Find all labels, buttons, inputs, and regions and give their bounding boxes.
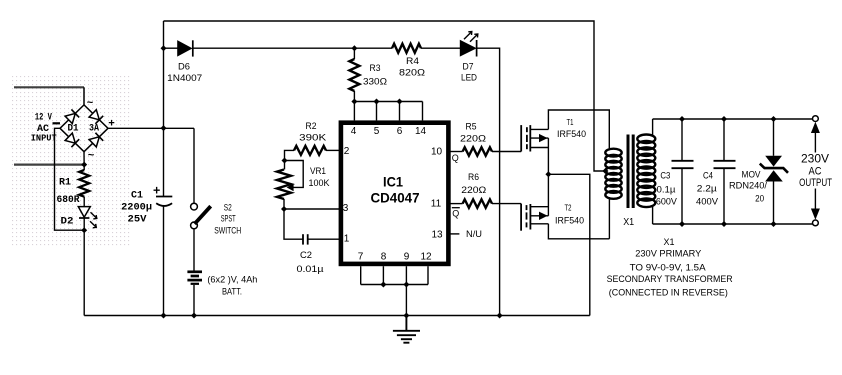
wire pin7 stub — [360, 266, 362, 284]
capacitor C2 — [302, 234, 304, 244]
label minus — [53, 122, 61, 124]
wire source node to ground rail — [548, 174, 589, 315]
junction bus pin4 — [351, 99, 357, 105]
svg-text:6: 6 — [397, 126, 403, 137]
wire to D6 anode — [164, 47, 178, 49]
junction battery at rail — [191, 313, 197, 319]
wire R2 to VR1 top — [285, 150, 295, 169]
svg-text:14: 14 — [415, 126, 427, 137]
svg-text:S2: S2 — [224, 202, 232, 212]
LED D7 — [460, 41, 475, 56]
svg-text:7: 7 — [358, 252, 364, 263]
wire D6 cathode to R4 — [193, 47, 392, 49]
wire R4 to D7 — [421, 47, 460, 49]
wire D7 cathode down to bottom rail — [477, 48, 500, 315]
wire R2 to pin2 — [326, 149, 341, 151]
svg-text:R6: R6 — [468, 172, 479, 183]
svg-text:VR1: VR1 — [310, 166, 326, 177]
svg-text:600V: 600V — [656, 197, 678, 208]
wire pin13 stub — [448, 233, 459, 235]
wire secondary bottom lead — [652, 206, 654, 225]
svg-text:SWITCH: SWITCH — [214, 225, 241, 235]
svg-text:R3: R3 — [370, 63, 381, 74]
junction centre tap — [602, 168, 608, 174]
transformer X1 core — [627, 135, 630, 209]
wire secondary top lead — [652, 119, 654, 136]
svg-text:12 V: 12 V — [35, 113, 52, 124]
resistor R5 220ohm — [463, 147, 492, 155]
svg-text:0.01µ: 0.01µ — [297, 264, 325, 275]
junction VR1 bottom pin3 — [281, 206, 287, 212]
svg-text:Q: Q — [452, 209, 459, 219]
LED D2 — [78, 207, 90, 218]
svg-text:R5: R5 — [466, 122, 477, 133]
svg-text:230V: 230V — [801, 152, 829, 166]
potentiometer VR1 100K — [277, 170, 291, 200]
svg-text:220Ω: 220Ω — [461, 185, 486, 196]
wire pin5 stub — [376, 102, 378, 121]
wire pin12 stub — [427, 266, 429, 284]
wire T2 drain up to junction — [547, 174, 549, 216]
svg-text:2200µ: 2200µ — [121, 202, 152, 213]
svg-text:C1: C1 — [131, 190, 143, 201]
svg-text:1N4007: 1N4007 — [167, 73, 202, 84]
svg-text:R2: R2 — [306, 121, 317, 132]
wire pin4 stub — [353, 102, 355, 121]
junction C3 bottom — [679, 221, 685, 227]
svg-text:20: 20 — [755, 194, 764, 205]
svg-text:OUTPUT: OUTPUT — [799, 177, 832, 189]
label Qbar — [452, 207, 460, 209]
svg-text:Q: Q — [452, 153, 459, 163]
wire R1 to D2 — [83, 197, 85, 207]
wire VR1 bottom — [283, 199, 285, 209]
svg-text:11: 11 — [431, 199, 442, 210]
svg-text:T2: T2 — [565, 204, 572, 213]
svg-text:8: 8 — [381, 252, 387, 263]
switch S2 — [191, 203, 198, 210]
svg-text:INPUT: INPUT — [31, 134, 58, 144]
svg-text:T1: T1 — [567, 118, 574, 127]
svg-text:~: ~ — [88, 151, 95, 163]
wire AC input lower — [14, 164, 84, 166]
svg-text:330Ω: 330Ω — [363, 77, 387, 88]
junction C4 bottom — [721, 221, 727, 227]
wire battery to bottom rail — [193, 285, 195, 316]
svg-text:(CONNECTED IN REVERSE): (CONNECTED IN REVERSE) — [609, 287, 728, 297]
wire T1 drain to primary top — [548, 110, 609, 149]
junction bus pin8 — [380, 282, 386, 288]
wire AC input upper — [14, 86, 84, 88]
junction bus pin9 — [403, 282, 409, 288]
svg-text:3A: 3A — [89, 124, 99, 135]
svg-text:C2: C2 — [300, 250, 312, 261]
svg-text:CD4047: CD4047 — [371, 190, 420, 206]
wire C1 minus to bottom rail — [163, 207, 165, 316]
wire S2 to battery — [193, 229, 195, 271]
wire D2 to bottom rail — [83, 218, 85, 316]
wire R3 top lead — [353, 48, 355, 59]
wire output bottom — [653, 223, 813, 225]
svg-text:680R: 680R — [57, 195, 80, 206]
wire pin10 to R5 — [448, 151, 462, 153]
wire T2 source to primary bottom — [548, 224, 609, 239]
wire bridge bottom to R1 — [83, 152, 85, 170]
wire primary bottom lead — [608, 197, 610, 239]
svg-text:820Ω: 820Ω — [399, 68, 425, 79]
wire pin11 to R6 — [448, 203, 462, 205]
svg-text:~: ~ — [87, 98, 94, 110]
capacitor C4 — [723, 119, 725, 161]
svg-text:220Ω: 220Ω — [460, 134, 486, 145]
wire pin14 stub — [422, 102, 424, 121]
wire output top — [653, 118, 813, 120]
svg-text:R1: R1 — [59, 178, 71, 189]
svg-text:BATT.: BATT. — [222, 287, 242, 297]
wire T1 source down — [547, 138, 549, 174]
bridge diode bottom-left — [65, 133, 75, 143]
capacitor C3 — [681, 119, 683, 161]
svg-text:(6x2 )V, 4Ah: (6x2 )V, 4Ah — [207, 275, 257, 285]
op-amp IC1 CD4047 box — [341, 123, 449, 264]
wire to S2 — [193, 128, 195, 203]
svg-text:D1: D1 — [68, 124, 79, 135]
svg-text:12: 12 — [420, 252, 432, 263]
bridge rectifier D1 3A — [60, 105, 108, 152]
svg-text:TO 9V-0-9V, 1.5A: TO 9V-0-9V, 1.5A — [630, 263, 706, 273]
node 230V AC output bottom terminal — [814, 189, 816, 209]
resistor R6 220ohm — [463, 199, 492, 207]
wire top rail to transformer centre tap — [164, 21, 606, 171]
bridge diode bottom-right — [89, 137, 99, 147]
background dotted grid (left area) — [10, 76, 130, 248]
svg-text:10: 10 — [431, 147, 443, 158]
svg-text:C3: C3 — [660, 170, 670, 181]
junction C3 top — [679, 116, 685, 122]
wire pin9 stub — [405, 266, 407, 284]
svg-text:390K: 390K — [299, 132, 327, 143]
junction D6 anode tap — [161, 45, 167, 51]
resistor R1 680R — [79, 170, 89, 197]
svg-text:D7: D7 — [463, 62, 474, 73]
svg-text:AC: AC — [809, 166, 822, 178]
diode D6 1N4007 — [178, 41, 192, 56]
svg-text:N/U: N/U — [466, 229, 482, 240]
svg-text:13: 13 — [431, 230, 443, 241]
svg-text:X1: X1 — [623, 217, 634, 228]
junction MOV bottom — [771, 221, 777, 227]
junction R3 top — [351, 45, 357, 51]
wire bottom pin bus — [361, 284, 428, 286]
svg-text:IRF540: IRF540 — [555, 216, 584, 227]
junction D7 return at rail — [497, 313, 503, 319]
wire R6 to T2 gate — [492, 203, 521, 205]
svg-text:SECONDARY TRANSFORMER: SECONDARY TRANSFORMER — [607, 274, 733, 284]
junction bridge plus node — [161, 125, 167, 131]
transformer X1 primary winding — [605, 149, 621, 199]
wire R5 to T1 gate — [492, 151, 521, 153]
junction bus pin5 — [374, 99, 380, 105]
svg-text:400V: 400V — [696, 197, 719, 208]
svg-text:4: 4 — [351, 126, 357, 137]
wire pin8 stub — [382, 266, 384, 284]
varistor MOV RDN240/20 — [773, 119, 775, 156]
wire R3 bottom lead — [353, 91, 355, 102]
svg-text:X1: X1 — [664, 237, 675, 247]
resistor R2 390K — [294, 146, 326, 155]
junction C1 at bottom rail — [161, 313, 167, 319]
wire AC upper to bridge top — [83, 87, 85, 105]
svg-text:MOV: MOV — [742, 169, 762, 180]
transformer X1 secondary winding — [637, 135, 655, 208]
wire to pin 3 — [284, 208, 341, 210]
junction D2 bottom — [81, 227, 87, 233]
svg-text:R4: R4 — [406, 56, 419, 67]
svg-text:IC1: IC1 — [383, 174, 403, 190]
ground — [393, 316, 420, 343]
wire bus to ground rail — [405, 285, 407, 316]
transistor T2 IRF540 — [521, 204, 548, 231]
transistor T1 IRF540 — [521, 125, 548, 151]
junction T1 source T2 drain — [545, 171, 551, 177]
wire +12V vertical upper — [163, 21, 165, 197]
junction VR1 top wiper — [282, 158, 288, 164]
bridge diode top-right — [89, 110, 99, 120]
VR1 wiper — [285, 161, 304, 188]
wire VR1 to C2 — [284, 209, 303, 239]
svg-text:D6: D6 — [178, 62, 190, 73]
resistor R3 330ohm — [349, 59, 359, 91]
svg-text:0.1µ: 0.1µ — [657, 185, 677, 196]
svg-text:9: 9 — [404, 252, 410, 263]
capacitor C1 — [156, 196, 172, 198]
svg-text:IRF540: IRF540 — [557, 129, 586, 140]
junction C4 top — [721, 116, 727, 122]
wire bridge left to D2 bottom — [55, 128, 85, 230]
svg-text:RDN240/: RDN240/ — [729, 180, 767, 191]
junction bridge-AC-R1 — [81, 162, 87, 168]
wire top pin bus — [354, 101, 422, 103]
wire pin6 stub — [399, 102, 401, 121]
svg-text:100K: 100K — [309, 178, 331, 189]
wire C2 to pin 1 — [308, 238, 341, 240]
svg-text:2: 2 — [344, 146, 350, 157]
svg-text:5: 5 — [374, 126, 380, 137]
junction MOV top — [771, 116, 777, 122]
svg-text:+: + — [153, 184, 160, 198]
junction ground rail — [403, 313, 409, 319]
svg-text:3: 3 — [343, 203, 349, 214]
wire bridge + output — [108, 127, 194, 129]
svg-text:1: 1 — [344, 234, 350, 245]
wire bottom ground rail — [84, 315, 590, 317]
svg-text:LED: LED — [461, 73, 477, 84]
svg-text:SPST: SPST — [221, 213, 236, 223]
junction bus pin6 — [397, 99, 403, 105]
svg-text:D2: D2 — [61, 217, 74, 228]
battery 12V — [187, 272, 202, 284]
svg-text:C4: C4 — [703, 170, 713, 181]
node 230V AC output top terminal — [813, 116, 819, 122]
svg-text:25V: 25V — [128, 214, 147, 225]
svg-text:230V PRIMARY: 230V PRIMARY — [635, 249, 701, 259]
bridge diode top-left — [65, 113, 75, 123]
svg-text:2.2µ: 2.2µ — [697, 184, 718, 195]
resistor R4 820ohm — [392, 44, 421, 53]
